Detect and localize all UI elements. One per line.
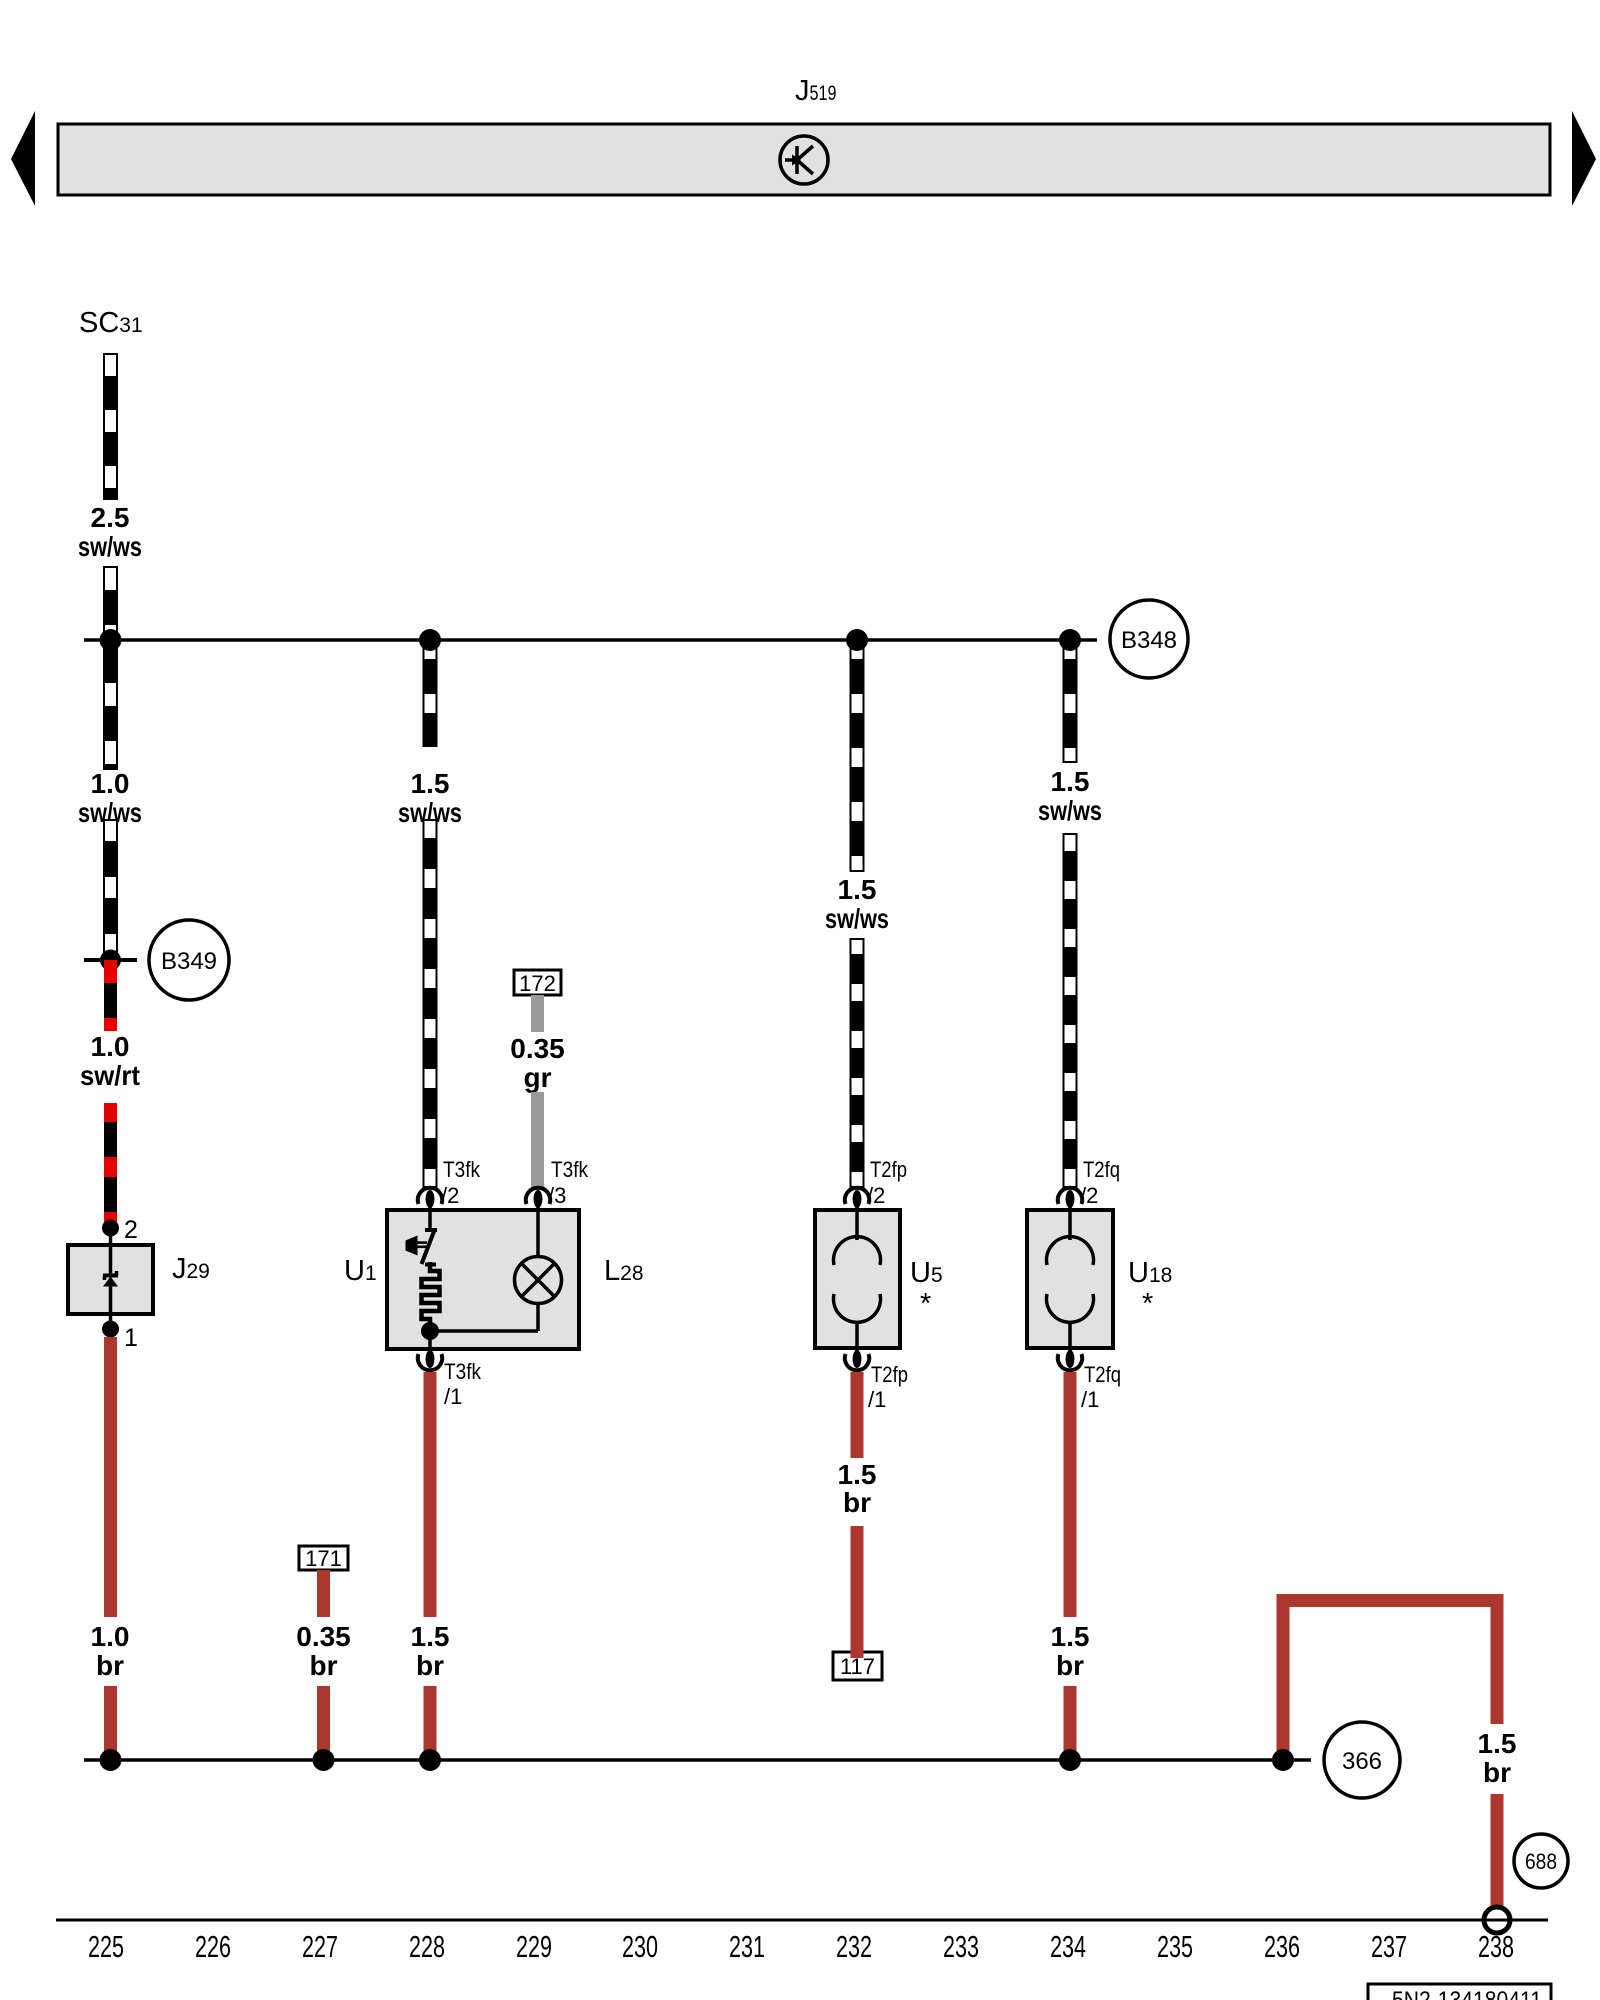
wire br to ground bus: [1064, 1686, 1077, 1760]
wire sw/ws below bus col 228: [424, 640, 437, 746]
svg-text:2: 2: [124, 1216, 138, 1244]
svg-text:1: 1: [124, 1324, 138, 1352]
wire sw/ws below bus col 234: [1064, 640, 1077, 762]
svg-text:/2: /2: [867, 1183, 885, 1208]
svg-text:/2: /2: [441, 1183, 459, 1208]
terminal symbol circle in J519 bar: [780, 136, 828, 184]
wire junction to lamp branch: [430, 1329, 538, 1333]
wire gr to L28: [531, 1092, 544, 1187]
U1 resistor meander: [422, 1262, 440, 1324]
svg-text:br: br: [96, 1650, 124, 1681]
svg-text:/1: /1: [444, 1384, 462, 1409]
U1 lighter element symbol: [417, 1230, 437, 1265]
left continuation arrow: [11, 111, 35, 206]
svg-text:234: 234: [1050, 1929, 1086, 1964]
svg-text:238: 238: [1478, 1929, 1514, 1964]
wire into J29: [109, 1228, 113, 1274]
svg-text:sw/ws: sw/ws: [1038, 795, 1102, 826]
svg-text:L28: L28: [604, 1255, 644, 1287]
svg-text:1.5: 1.5: [1478, 1728, 1517, 1759]
connection point 117 box: [833, 1652, 882, 1680]
wire br to ground bus: [424, 1686, 437, 1760]
wire junction to pin T3fk/1: [428, 1331, 432, 1352]
junction on ground bus: [419, 1749, 441, 1771]
svg-text:sw/ws: sw/ws: [825, 903, 889, 934]
relay J29 box: [68, 1245, 153, 1314]
junction on B348 bus: [100, 629, 122, 651]
wire sw/rt below B349: [104, 960, 117, 1031]
junction on ground bus: [100, 1749, 122, 1771]
svg-text:227: 227: [302, 1929, 338, 1964]
node B348 bus wire: [84, 638, 1097, 642]
right continuation arrow: [1572, 111, 1596, 206]
wire sw/ws 2.5 from SC31: [104, 354, 117, 499]
svg-text:gr: gr: [524, 1062, 552, 1093]
svg-text:/2: /2: [1080, 1183, 1098, 1208]
svg-text:B348: B348: [1121, 627, 1177, 654]
svg-text:J519: J519: [795, 75, 837, 107]
svg-text:0.35: 0.35: [510, 1033, 565, 1064]
connection point 171 box: [299, 1546, 348, 1570]
svg-text:5N2-134180411: 5N2-134180411: [1392, 1987, 1542, 2000]
svg-text:1.5: 1.5: [411, 768, 450, 799]
svg-text:1.5: 1.5: [1051, 1621, 1090, 1652]
svg-text:1.0: 1.0: [91, 768, 130, 799]
junction on B348 bus col 234: [1059, 629, 1081, 651]
svg-text:U5: U5: [910, 1257, 943, 1289]
svg-text:228: 228: [409, 1929, 445, 1964]
svg-text:U18: U18: [1128, 1257, 1172, 1289]
svg-text:T3fk: T3fk: [444, 1359, 482, 1384]
svg-text:B349: B349: [161, 948, 217, 975]
wire J29 to pin 1: [109, 1284, 113, 1329]
svg-text:*: *: [920, 1288, 931, 1320]
svg-text:366: 366: [1342, 1748, 1382, 1775]
svg-text:232: 232: [836, 1929, 872, 1964]
bottom rule: [56, 1919, 1548, 1922]
pin 1 of J29: [102, 1321, 119, 1338]
socket U18 box: [1027, 1210, 1113, 1348]
svg-text:233: 233: [943, 1929, 979, 1964]
svg-text:T3fk: T3fk: [551, 1157, 589, 1182]
svg-text:1.0: 1.0: [91, 1621, 130, 1652]
wire br to terminal 688: [1491, 1794, 1504, 1909]
svg-text:/1: /1: [868, 1387, 886, 1412]
svg-text:237: 237: [1371, 1929, 1407, 1964]
svg-text:171: 171: [305, 1546, 342, 1571]
svg-text:688: 688: [1525, 1849, 1557, 1874]
svg-text:229: 229: [516, 1929, 552, 1964]
svg-text:117: 117: [840, 1654, 875, 1679]
junction on ground bus: [313, 1749, 335, 1771]
node B348 circle: [1110, 600, 1188, 678]
wire br 0.35 from 171: [317, 1570, 330, 1617]
wire gr 0.35 from 172: [531, 995, 544, 1032]
wire sw/ws to B349: [104, 820, 117, 960]
svg-text:225: 225: [88, 1929, 124, 1964]
wire sw/ws 1.5 to U18: [1064, 834, 1077, 1187]
node 366 circle: [1324, 1722, 1400, 1798]
control module J519 bar: [58, 124, 1550, 195]
svg-text:1.5: 1.5: [838, 874, 877, 905]
ground terminal ring: [1484, 1907, 1510, 1933]
svg-text:U1: U1: [344, 1255, 377, 1287]
wire sw/ws 1.5 to U5: [851, 939, 864, 1187]
junction on ground bus col 236: [1272, 1749, 1294, 1771]
pin 2 of J29: [102, 1220, 119, 1237]
junction on B348 bus col 228: [419, 629, 441, 651]
lamp L28 symbol: [536, 1210, 540, 1257]
svg-text:SC31: SC31: [79, 307, 143, 339]
connector T3fk/1: [418, 1350, 442, 1370]
svg-text:br: br: [843, 1487, 871, 1518]
svg-text:br: br: [310, 1650, 338, 1681]
node B349 tick: [84, 958, 137, 962]
svg-text:0.35: 0.35: [296, 1621, 351, 1652]
connector T2fp/1: [845, 1350, 869, 1370]
cigarette lighter U1 / lamp L28 box: [387, 1210, 579, 1349]
svg-text:172: 172: [519, 971, 556, 996]
wire br 1.5 from U18: [1064, 1372, 1077, 1617]
ground bus stub to node 366: [1283, 1758, 1311, 1762]
connector T3fk/3: [526, 1188, 550, 1212]
drawing number box: [1368, 1984, 1551, 2000]
svg-text:230: 230: [622, 1929, 658, 1964]
svg-text:*: *: [1142, 1288, 1153, 1320]
wire br 1.5 from U1: [424, 1372, 437, 1617]
svg-text:1.5: 1.5: [838, 1459, 877, 1490]
svg-text:/1: /1: [1081, 1387, 1099, 1412]
node B349 junction: [100, 950, 121, 971]
connector T2fp/2: [845, 1188, 869, 1212]
ground bus wire: [84, 1758, 1283, 1762]
U1 heater branch wire: [428, 1210, 432, 1231]
diode symbol inside J29: [103, 1274, 118, 1278]
wire sw/ws 1.5 to U1: [424, 820, 437, 1187]
svg-text:J29: J29: [172, 1253, 210, 1285]
connector T2fq/1: [1058, 1350, 1082, 1370]
wire br to 117: [851, 1526, 864, 1658]
svg-text:226: 226: [195, 1929, 231, 1964]
socket U5 box: [815, 1210, 900, 1348]
svg-text:1.5: 1.5: [1051, 766, 1090, 797]
svg-text:235: 235: [1157, 1929, 1193, 1964]
connector T2fq/2: [1058, 1188, 1082, 1212]
svg-text:br: br: [416, 1650, 444, 1681]
node 688 circle: [1514, 1834, 1568, 1888]
wire sw/rt to J29 pin 2: [104, 1103, 117, 1222]
svg-text:/3: /3: [548, 1183, 566, 1208]
svg-text:1.5: 1.5: [411, 1621, 450, 1652]
wire br 1.5 from U5: [851, 1372, 864, 1458]
svg-text:T2fq: T2fq: [1084, 1362, 1121, 1387]
svg-text:2.5: 2.5: [91, 502, 130, 533]
wire sw/ws 1.0 crossing B348 bus: [104, 567, 117, 769]
wire br L-shape from ground bus to 688: [1277, 1594, 1290, 1760]
svg-text:236: 236: [1264, 1929, 1300, 1964]
svg-text:br: br: [1483, 1757, 1511, 1788]
wire sw/ws below bus col 232: [851, 640, 864, 871]
svg-text:T2fp: T2fp: [871, 1362, 908, 1387]
svg-text:br: br: [1056, 1650, 1084, 1681]
socket symbol U5: [855, 1210, 859, 1240]
socket symbol U18: [1068, 1210, 1072, 1240]
junction on ground bus: [1059, 1749, 1081, 1771]
connection point 172 box: [514, 970, 561, 995]
wire br to ground bus: [104, 1686, 117, 1760]
wire br to ground bus: [317, 1686, 330, 1760]
junction inside U1 box: [421, 1322, 439, 1340]
svg-text:231: 231: [729, 1929, 765, 1964]
svg-text:T3fk: T3fk: [443, 1157, 481, 1182]
svg-text:T2fp: T2fp: [870, 1157, 907, 1182]
svg-text:sw/ws: sw/ws: [78, 531, 142, 562]
svg-text:sw/rt: sw/rt: [80, 1060, 140, 1091]
connector T3fk/2: [418, 1188, 442, 1212]
svg-text:T2fq: T2fq: [1083, 1157, 1120, 1182]
wire br 1.0 from J29: [104, 1337, 117, 1617]
junction on B348 bus col 232: [846, 629, 868, 651]
node B349 circle: [149, 920, 229, 1000]
svg-text:1.0: 1.0: [91, 1031, 130, 1062]
